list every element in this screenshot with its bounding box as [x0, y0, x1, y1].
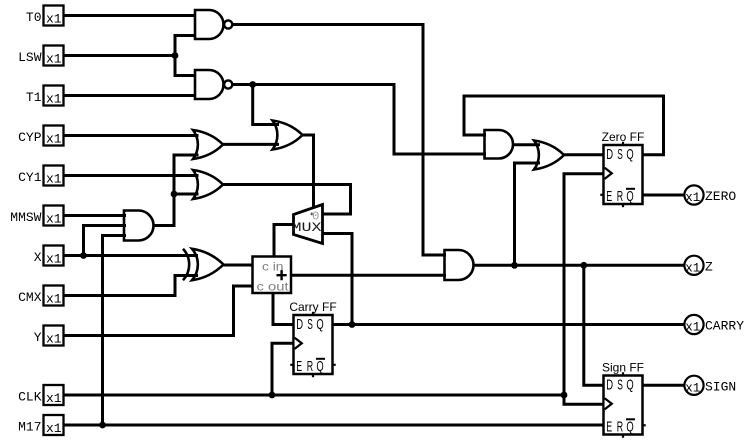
wire CLK branch to Zero FF clock — [564, 174, 605, 395]
OR gate U10 — [534, 141, 564, 170]
junction Z to Sign FF — [580, 262, 587, 269]
wire LSW branch to NAND U1/U2 — [175, 36, 196, 76]
wire X branch to AND U6 — [84, 226, 127, 256]
svg-text:Q: Q — [626, 377, 633, 394]
NAND gate U1 (T0/LSW) — [195, 10, 223, 39]
svg-text:Q: Q — [626, 146, 633, 163]
input pin T1 — [44, 86, 64, 106]
AND gate U6 (MMSW/X/M17) — [124, 211, 154, 241]
svg-text:x1: x1 — [685, 191, 700, 205]
OR gate U5 — [273, 121, 303, 150]
wire OR U4 out to MUX — [223, 185, 351, 215]
svg-text:Q: Q — [316, 358, 323, 375]
svg-text:x1: x1 — [46, 172, 62, 187]
wire CYP to OR U3 — [64, 134, 199, 137]
wire adder cout to Carry FF D — [273, 293, 295, 325]
svg-text:CMX: CMX — [18, 290, 42, 305]
svg-text:E: E — [296, 358, 302, 375]
wire AND U9 out to OR U10 — [513, 143, 541, 146]
svg-text:Zero FF: Zero FF — [602, 130, 645, 144]
svg-text:S: S — [617, 377, 623, 394]
svg-text:D: D — [606, 146, 613, 163]
OR gate U4 (CY1) — [193, 170, 223, 199]
wire Y to adder — [64, 286, 255, 336]
wire Carry FF Q to CARRY — [332, 323, 684, 326]
input pin LSW — [44, 46, 64, 66]
svg-text:LSW: LSW — [18, 50, 42, 65]
output pin Z — [684, 256, 703, 275]
adder (c in / + / c out) — [253, 257, 292, 294]
input pin X — [44, 246, 64, 266]
svg-text:x1: x1 — [46, 421, 62, 436]
multiplexer MUX — [294, 205, 323, 244]
flip-flop Zero FF — [604, 145, 643, 204]
junction Carry FF Q node — [349, 321, 356, 328]
svg-text:SIGN: SIGN — [705, 380, 736, 395]
svg-text:x1: x1 — [46, 252, 62, 267]
svg-text:x1: x1 — [46, 212, 62, 227]
junction Z to OR U10 — [511, 262, 518, 269]
svg-text:D: D — [606, 377, 613, 394]
wire Zero FF Q feedback to AND U9 — [464, 96, 664, 155]
XOR U7 input arc — [183, 249, 189, 280]
svg-text:E: E — [606, 188, 612, 205]
wire NAND U1 out to AND U8 — [233, 25, 447, 256]
svg-text:x1: x1 — [46, 12, 62, 27]
svg-text:Q: Q — [626, 419, 633, 436]
wire CLK — [64, 394, 565, 397]
wire AND U8 out (Z) — [473, 264, 684, 267]
wire X to XOR U7 — [64, 254, 199, 257]
wire MUX in2 from Carry Q — [322, 234, 352, 325]
junction M17 node — [99, 422, 106, 429]
svg-text:x1: x1 — [46, 52, 62, 67]
svg-text:Carry FF: Carry FF — [289, 300, 336, 314]
wire XOR U7 out to adder — [223, 264, 254, 267]
svg-text:Z: Z — [705, 260, 713, 275]
svg-text:Y: Y — [34, 330, 42, 345]
OR gate U3 (CYP) — [193, 130, 223, 159]
svg-text:Q: Q — [316, 316, 323, 333]
wire CLK branch to Sign FF clock — [564, 395, 605, 404]
wire OR U10 out to Zero FF D — [563, 153, 605, 156]
XOR gate U7 body (X/CMX) — [192, 249, 224, 280]
input pin T0 — [44, 6, 64, 26]
wire CLK to Carry FF clock — [272, 343, 295, 395]
svg-text:S: S — [307, 316, 313, 333]
output pin ZERO — [684, 185, 703, 204]
output pin SIGN — [684, 376, 703, 395]
svg-text:MMSW: MMSW — [10, 210, 41, 225]
AND gate U8 (Z) — [445, 250, 474, 280]
svg-text:Q: Q — [626, 188, 633, 205]
wire Zero FF Qbar to ZERO — [642, 194, 685, 197]
junction CLK node — [561, 392, 568, 399]
wire adder sum to AND U8 — [291, 274, 446, 277]
wire AND U6 out to OR U3/U4 — [153, 155, 199, 226]
svg-text:Sign FF: Sign FF — [602, 361, 644, 375]
wire Z branch to OR U10 — [515, 163, 541, 265]
flip-flop Carry FF — [294, 315, 333, 374]
svg-text:x1: x1 — [685, 321, 700, 335]
wire Sign FF Q to SIGN — [642, 384, 685, 387]
input pin CLK — [44, 385, 64, 405]
svg-text:MUX: MUX — [292, 221, 323, 235]
svg-text:CYP: CYP — [18, 130, 42, 145]
wire MUX out to adder — [274, 225, 294, 259]
svg-text:c in: c in — [262, 260, 284, 274]
NAND U2 bubble — [224, 80, 232, 88]
junction AND U6 output node — [171, 191, 178, 198]
svg-text:c out: c out — [257, 280, 290, 294]
input pin CMX — [44, 286, 64, 306]
svg-text:x1: x1 — [46, 92, 62, 107]
svg-text:T0: T0 — [26, 10, 42, 25]
svg-text:x1: x1 — [46, 132, 62, 147]
input pin Y — [44, 326, 64, 346]
svg-text:E: E — [606, 419, 612, 436]
svg-text:CLK: CLK — [18, 390, 42, 405]
svg-text:D: D — [296, 316, 303, 333]
svg-text:CARRY: CARRY — [705, 319, 744, 334]
svg-text:X: X — [34, 250, 42, 265]
svg-text:x1: x1 — [46, 332, 62, 347]
svg-text:R: R — [307, 358, 313, 375]
svg-text:M17: M17 — [18, 420, 41, 435]
junction LSW node — [172, 52, 179, 59]
wire LSW to junction — [64, 54, 177, 57]
svg-text:x1: x1 — [685, 382, 700, 396]
wire CMX to XOR U7 — [64, 276, 199, 296]
input pin MMSW — [44, 206, 64, 226]
svg-text:CY1: CY1 — [18, 170, 42, 185]
wire M17 to Sign FF E — [64, 424, 606, 427]
wire node after U2 to OR U5 — [253, 85, 279, 125]
output pin CARRY — [684, 315, 703, 334]
input pin CYP — [44, 126, 64, 146]
wire MMSW to AND U6 — [64, 214, 127, 217]
junction CLK to Carry FF — [269, 392, 276, 399]
wire CY1 to OR U4 — [64, 174, 199, 177]
svg-text:x1: x1 — [46, 292, 62, 307]
input pin CY1 — [44, 166, 64, 186]
wire T0 to NAND U1 — [64, 14, 197, 17]
NAND U1 bubble — [224, 20, 232, 28]
svg-text:x1: x1 — [685, 262, 700, 276]
svg-text:R: R — [617, 188, 623, 205]
NAND gate U2 (LSW/T1) — [195, 70, 224, 99]
wire branch to OR U4 — [174, 193, 199, 196]
AND gate U9 (feedback) — [485, 130, 514, 159]
svg-text:S: S — [617, 146, 623, 163]
flip-flop Sign FF — [604, 376, 643, 435]
junction NAND U2 output node — [249, 81, 256, 88]
wire OR U5 out to MUX top — [303, 135, 314, 207]
input pin M17 — [44, 415, 64, 435]
junction X node — [80, 252, 87, 259]
svg-text:R: R — [617, 419, 623, 436]
svg-text:T1: T1 — [26, 90, 42, 105]
wire M17 branch to AND U6 — [103, 236, 127, 426]
wire OR U3 out to OR U5 — [223, 143, 280, 146]
svg-text:ZERO: ZERO — [705, 189, 736, 204]
wire T1 to NAND U2 — [64, 94, 197, 97]
wire Z branch to Sign FF D — [584, 265, 605, 385]
wire NAND U2 out — [233, 85, 486, 155]
svg-text:x1: x1 — [46, 391, 62, 406]
